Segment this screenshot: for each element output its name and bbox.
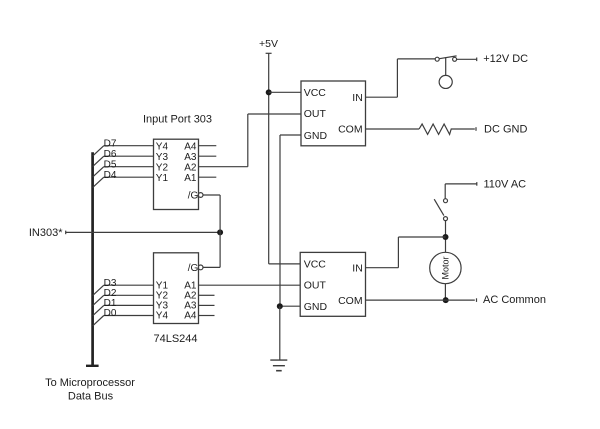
svg-text:Input Port 303: Input Port 303	[143, 114, 212, 126]
svg-text:DC GND: DC GND	[484, 123, 527, 135]
svg-text:IN303*: IN303*	[29, 227, 63, 239]
svg-text:+5V: +5V	[259, 38, 278, 50]
node D3	[93, 278, 154, 296]
svg-text:Y2: Y2	[156, 162, 169, 173]
node D5	[93, 159, 154, 177]
node D6	[93, 149, 154, 167]
module U3 (DC output module)	[301, 81, 366, 146]
svg-text:D6: D6	[104, 149, 117, 160]
terminal tick +12V	[476, 58, 478, 62]
terminal tick AC Common	[476, 298, 478, 302]
svg-text:COM: COM	[338, 123, 363, 135]
pin stub A4	[199, 315, 215, 317]
pin /G circle U1	[198, 193, 203, 198]
motor M1	[430, 252, 461, 283]
junction GND	[277, 303, 283, 309]
wire COM U4 to AC Common terminal	[366, 299, 475, 301]
bus end bar	[86, 365, 99, 367]
node D7	[93, 138, 154, 156]
wire GND U4	[280, 305, 300, 307]
svg-text:COM: COM	[338, 295, 363, 307]
terminal 110V AC	[445, 182, 477, 199]
wire VCC U3	[269, 91, 301, 93]
svg-text:A4: A4	[184, 141, 197, 152]
svg-text:+12V DC: +12V DC	[483, 53, 528, 65]
svg-text:IN: IN	[352, 92, 363, 104]
pin /G circle U2	[198, 265, 203, 270]
svg-text:A3: A3	[184, 152, 197, 163]
wire /G U2	[203, 266, 221, 268]
wire /G vertical	[219, 195, 221, 267]
svg-text:D0: D0	[104, 308, 117, 319]
node D4	[93, 170, 154, 188]
switch S2 (110V AC)	[434, 199, 447, 253]
wire A2 to OUT of U3	[199, 114, 302, 167]
svg-text:Y4: Y4	[156, 141, 169, 152]
svg-text:D7: D7	[104, 138, 117, 149]
wire junction to IN U4	[366, 237, 446, 268]
wire /G U1	[203, 194, 221, 196]
wire switch to +12V terminal	[457, 58, 477, 60]
svg-text:OUT: OUT	[304, 280, 327, 292]
wire IN U3 to switch	[366, 59, 436, 97]
svg-text:A1: A1	[184, 173, 197, 184]
pin stub A2	[199, 294, 215, 296]
svg-text:Y3: Y3	[156, 152, 169, 163]
svg-text:To Microprocessor: To Microprocessor	[45, 377, 135, 389]
svg-text:/G: /G	[188, 190, 199, 201]
data bus (thick vertical)	[86, 152, 99, 365]
node D2	[93, 288, 154, 306]
node D1	[93, 298, 154, 316]
wire COM U3 to resistor	[366, 128, 420, 130]
svg-text:IN: IN	[352, 263, 363, 275]
buffer U1 Input Port 303	[154, 139, 199, 209]
wire resistor to DC GND terminal	[451, 128, 475, 130]
svg-text:Motor: Motor	[441, 256, 451, 279]
ground	[270, 360, 287, 371]
svg-text:A2: A2	[184, 162, 197, 173]
module U4 (AC output module)	[300, 252, 365, 316]
svg-text:D4: D4	[104, 170, 117, 181]
pin stub A3	[199, 304, 215, 306]
pin stub A1	[199, 176, 217, 178]
svg-text:GND: GND	[304, 130, 328, 142]
pin stub A4	[199, 145, 217, 147]
wire VCC U4	[269, 263, 301, 265]
svg-text:Y4: Y4	[156, 311, 169, 322]
switch S1 (+12V)	[435, 56, 456, 61]
junction above motor	[443, 234, 449, 240]
resistor R1	[419, 124, 451, 134]
svg-text:GND: GND	[304, 301, 328, 313]
pin stub A3	[199, 155, 217, 157]
node IN303*	[29, 227, 220, 239]
wire motor to AC common junction	[444, 284, 446, 300]
label To Microprocessor Data Bus	[45, 377, 135, 403]
wire GND U3 down	[280, 135, 301, 306]
svg-text:OUT: OUT	[304, 108, 327, 120]
junction AC common	[443, 297, 449, 303]
svg-text:VCC: VCC	[304, 259, 327, 271]
svg-text:74LS244: 74LS244	[153, 333, 197, 345]
svg-text:/G: /G	[188, 263, 199, 274]
svg-text:VCC: VCC	[304, 87, 327, 99]
buffer U2 74LS244	[154, 253, 199, 324]
node D0	[93, 308, 154, 326]
wire A1 to OUT of U4	[199, 284, 301, 286]
junction +5V/VCC	[266, 89, 272, 95]
svg-text:Data Bus: Data Bus	[68, 391, 114, 403]
svg-text:Y1: Y1	[156, 173, 169, 184]
power +5V	[259, 38, 278, 264]
lamp DS1	[439, 57, 452, 88]
junction IN303	[217, 229, 223, 235]
svg-text:110V AC: 110V AC	[484, 178, 527, 190]
svg-text:A4: A4	[184, 311, 197, 322]
svg-text:AC Common: AC Common	[483, 294, 546, 306]
wire to ground	[279, 306, 281, 360]
terminal tick DC GND	[475, 127, 477, 131]
svg-text:D5: D5	[104, 159, 117, 170]
